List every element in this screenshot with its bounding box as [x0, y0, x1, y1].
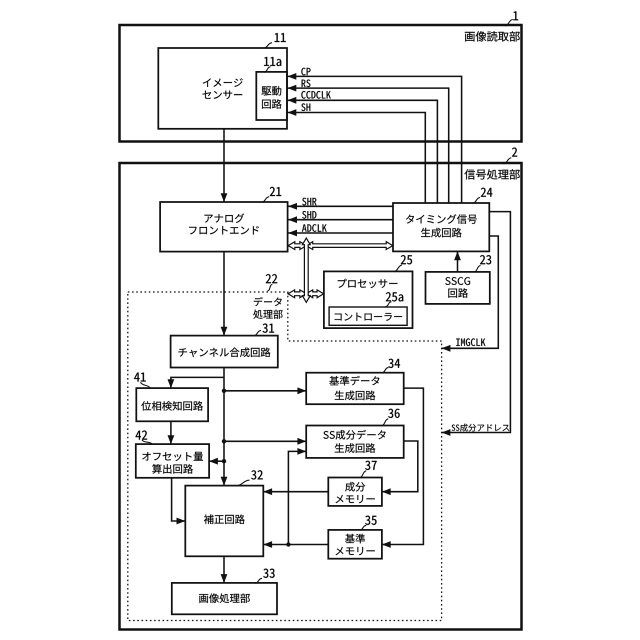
wire RS from timing 24 to drive circuit 11a — [288, 85, 449, 203]
label アナログ — [204, 214, 244, 223]
ref numeral 31 — [263, 324, 275, 333]
block 1 画像読取部 (image reading unit) outer box — [120, 25, 522, 142]
wire ADCLK from timing 24 to AFE 21 — [288, 230, 393, 237]
block 11 イメージセンサー (image sensor) — [158, 48, 287, 129]
ref numeral 25 — [401, 255, 412, 264]
wire node to offset calc 42 input — [209, 458, 224, 465]
junction node on 35 output — [286, 542, 290, 546]
label 成分 — [345, 482, 365, 492]
label 基準データ — [329, 376, 379, 386]
ref numeral 34 — [388, 359, 400, 368]
label メモリー of 37 — [336, 495, 375, 503]
label コントローラー — [335, 313, 402, 321]
label 生成回路 of 24 — [421, 228, 462, 238]
block 35 基準メモリー (reference memory) — [328, 530, 382, 559]
leader line for 37 — [360, 471, 367, 478]
leader line for 33 — [255, 578, 262, 583]
wire reference memory 35 to correction 32 — [263, 541, 328, 548]
leader line for 25a — [385, 302, 391, 307]
wire AFE 21 to channel synthesis 31 — [221, 252, 228, 336]
signal label SHD — [302, 211, 316, 219]
leader line for 22 — [268, 284, 273, 291]
ref numeral 23 — [480, 255, 491, 264]
wire branch to phase detection 41 — [168, 377, 225, 388]
junction node at 36 feed — [222, 439, 226, 443]
label 生成回路 of 34 — [335, 391, 376, 401]
leader line for 31 — [254, 330, 262, 336]
leader line for 36 — [382, 419, 389, 426]
label データ — [254, 297, 282, 306]
signal label CCDCLK — [301, 91, 330, 99]
block 37 成分メモリー (component memory) — [328, 478, 382, 506]
label チャンネル合成回路 — [179, 347, 271, 357]
block 24 タイミング信号生成回路 (timing signal generation circuit) — [393, 203, 489, 251]
bus arrow vertical bus to timing 24 — [306, 242, 393, 250]
label 基準 of 35 — [345, 534, 365, 544]
wire 36 to component memory 37 — [382, 441, 418, 495]
label 信号処理部 — [464, 169, 519, 179]
label 画像処理部 — [199, 593, 250, 603]
ref numeral 2 — [512, 148, 517, 157]
block 34 基準データ生成回路 (reference data generation circuit) — [306, 373, 404, 405]
wire CP from timing 24 to drive circuit 11a — [288, 73, 462, 203]
leader line for 1 — [505, 20, 513, 26]
wire sensor 11 to AFE 21 — [221, 129, 228, 202]
leader line for 11 — [264, 43, 273, 48]
label オフセット量 — [142, 452, 203, 461]
ref numeral 11a — [264, 57, 281, 66]
signal label ADCLK — [302, 224, 327, 232]
ref numeral 22 — [266, 274, 277, 283]
leader line for 42 — [142, 440, 153, 445]
wire IMGCLK from timing 24 to data processing 22 — [442, 236, 499, 352]
ref numeral 11 — [275, 33, 286, 42]
block 32 補正回路 (correction circuit) — [185, 486, 263, 557]
leader line for 11a — [264, 67, 271, 72]
junction node at 42 feed — [222, 459, 226, 463]
leader line for 41 — [141, 382, 151, 388]
ref numeral 25a — [386, 292, 403, 301]
wire branch 35 output up to 36 input — [288, 448, 306, 545]
bus arrow AFE 21 to vertical bus — [288, 242, 306, 250]
wire SS成分アドレス from timing 24 to data processing 22 — [442, 212, 511, 436]
wire CCDCLK from timing 24 to drive circuit 11a — [288, 97, 438, 203]
label タイミング信号 — [406, 214, 477, 224]
leader line for 24 — [473, 198, 481, 204]
wire 41 to offset calc 42 — [168, 421, 175, 444]
leader line for 34 — [382, 368, 389, 373]
block 36 SS成分データ生成回路 (SS component data generation circuit) — [306, 426, 404, 458]
wire component memory 37 to correction 32 — [263, 488, 328, 495]
block 31 チャンネル合成回路 (channel synthesis circuit) — [171, 336, 278, 368]
label 画像読取部 — [465, 31, 520, 41]
block 22 データ処理部 (data processing section) dashed outline — [128, 292, 442, 621]
leader line for 35 — [360, 525, 367, 530]
wire SHR from timing 24 to AFE 21 — [288, 203, 393, 210]
ref numeral 33 — [263, 569, 274, 578]
signal label CP — [301, 68, 310, 76]
wire 42 to correction 32 — [172, 478, 186, 525]
block 11a 駆動回路 (drive circuit) — [256, 72, 287, 120]
label SSCG — [445, 277, 470, 285]
ref numeral 36 — [388, 409, 399, 418]
ref numeral 37 — [365, 461, 376, 470]
wire SSCG 23 to timing 24 — [454, 251, 461, 272]
block 23 SSCG回路 (SSCG circuit) — [426, 272, 490, 304]
leader line for 32 — [236, 480, 250, 486]
wire node to reference data gen 34 — [224, 387, 306, 394]
wire correction 32 to image processing 33 — [221, 556, 228, 583]
wire 34 to reference memory 35 — [382, 388, 424, 548]
bus arrow data processing 22 to vertical bus — [288, 290, 307, 298]
label イメージ — [203, 78, 243, 87]
label メモリー of 35 — [336, 547, 375, 555]
label 生成回路 of 36 — [335, 443, 376, 453]
block 41 位相検知回路 (phase detection circuit) — [136, 388, 208, 421]
label 駆動 — [262, 86, 282, 95]
signal label SS成分アドレス — [452, 424, 510, 432]
label SS成分データ — [323, 430, 385, 440]
label 算出回路 — [152, 464, 193, 474]
signal label IMGCLK — [456, 338, 485, 346]
signal label SH — [301, 103, 310, 111]
label 回路 of 11a — [262, 99, 282, 109]
block 21 アナログフロントエンド (analog front end) — [160, 202, 288, 252]
ref numeral 32 — [251, 470, 263, 479]
leader line for 23 — [474, 265, 481, 272]
label プロセッサー — [338, 279, 398, 288]
wire SHD from timing 24 to AFE 21 — [288, 216, 393, 223]
block 33 画像処理部 (image processing section) — [172, 583, 277, 614]
label 補正回路 — [204, 514, 245, 524]
block 2 信号処理部 (signal processing unit) outer box — [120, 163, 522, 630]
label センサー — [203, 91, 243, 100]
block 25 プロセッサー (processor) — [324, 271, 413, 328]
label 回路 of 23 — [448, 288, 468, 298]
label 処理部 of 22 — [253, 310, 282, 319]
ref numeral 35 — [365, 516, 376, 525]
vertical bus arrow — [302, 238, 310, 302]
wire SH from timing 24 to drive circuit 11a — [288, 109, 426, 203]
label 位相検知回路 — [141, 401, 203, 411]
ref numeral 1 — [513, 11, 518, 20]
wire channel synthesis 31 down to correction 32 — [221, 368, 228, 486]
signal label SHR — [302, 198, 316, 206]
signal label RS — [302, 80, 311, 88]
ref numeral 41 — [134, 373, 146, 382]
block 42 オフセット量算出回路 (offset amount calculation circuit) — [136, 444, 209, 478]
leader line for 25 — [394, 265, 402, 272]
wire node to SS component data gen 36 — [224, 438, 306, 445]
ref numeral 21 — [270, 187, 281, 196]
block 25a コントローラー (controller) — [329, 307, 407, 325]
ref numeral 42 — [136, 431, 148, 440]
leader line for 2 — [504, 158, 512, 164]
bus arrow vertical bus to processor 25 — [306, 290, 324, 298]
label フロントエンド — [189, 226, 259, 234]
ref numeral 24 — [481, 188, 493, 197]
junction node at 34 feed — [222, 389, 226, 393]
leader line for 21 — [262, 197, 270, 203]
